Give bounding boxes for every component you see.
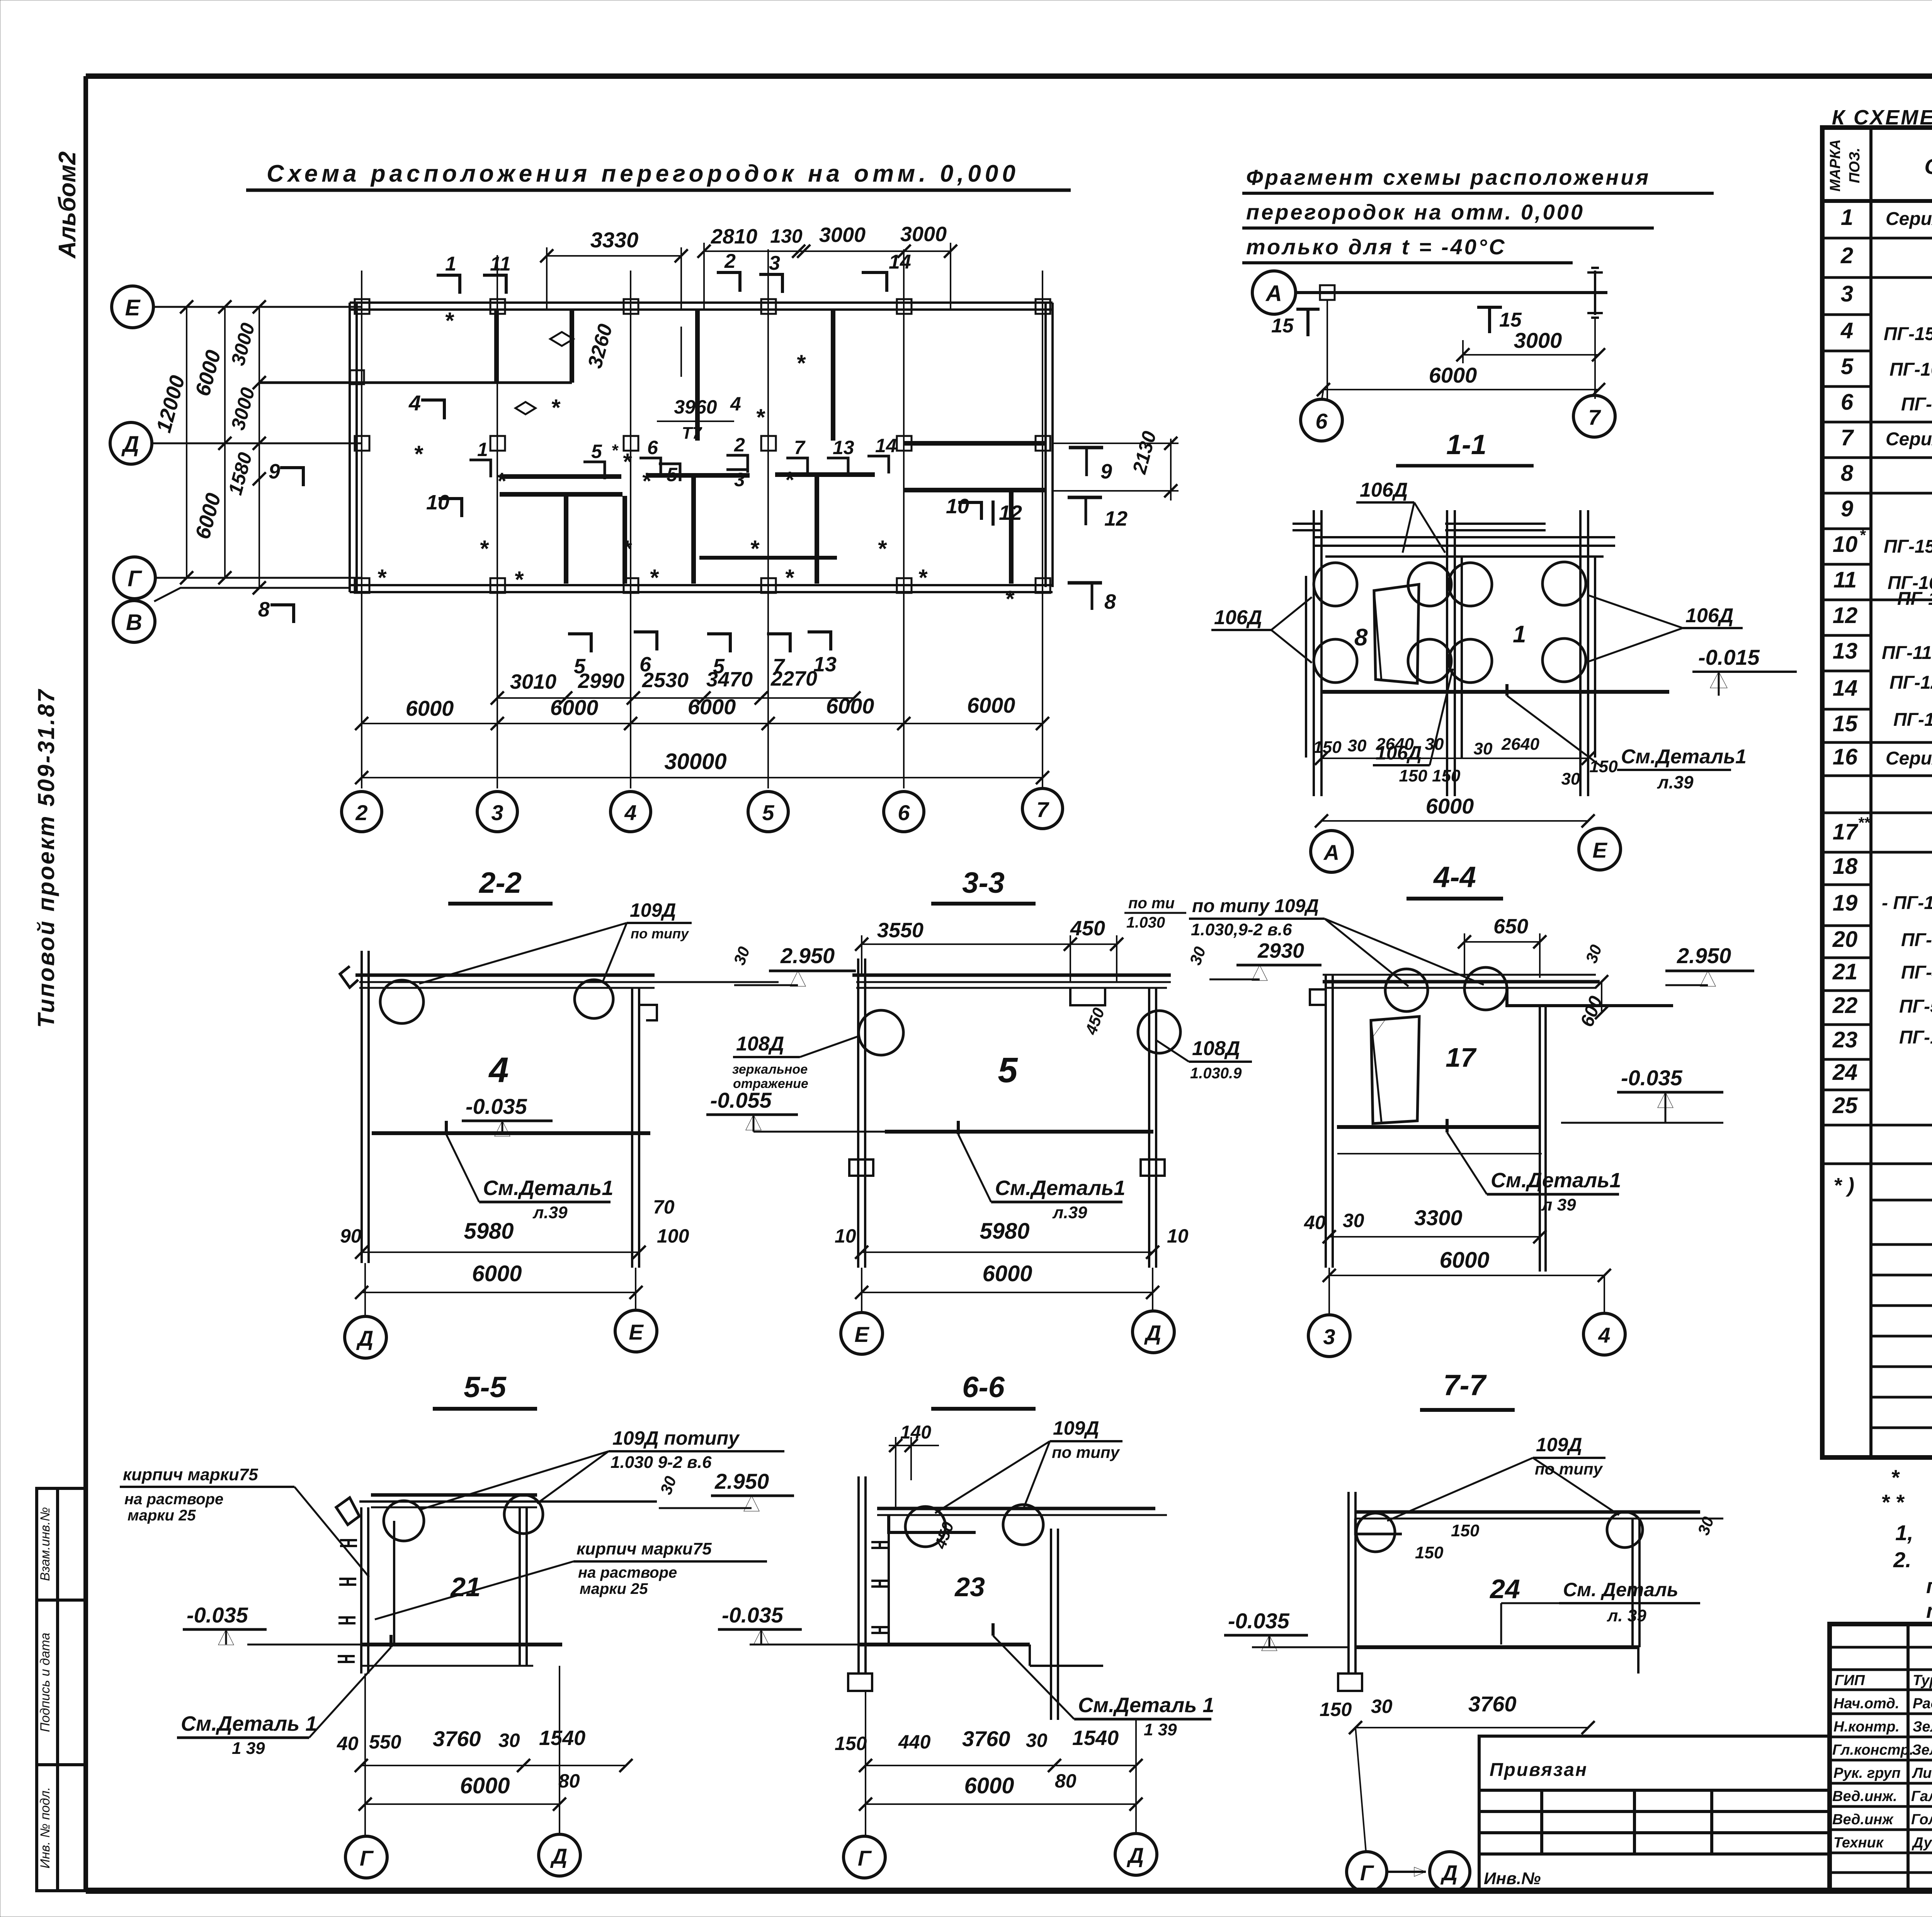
svg-text:10: 10 bbox=[426, 491, 449, 514]
svg-text:толщиной 4 мм.: толщиной 4 мм. bbox=[1926, 1599, 1932, 1622]
svg-text:12: 12 bbox=[1104, 507, 1128, 530]
svg-text:перегородок на отм. 0,000: перегородок на отм. 0,000 bbox=[1246, 200, 1585, 224]
flag 10 12 right bbox=[946, 495, 1022, 526]
svg-text:3000: 3000 bbox=[819, 223, 866, 247]
flag 10 left bbox=[426, 491, 462, 517]
svg-text:1-1: 1-1 bbox=[1446, 429, 1486, 460]
svg-text:л. 39: л. 39 bbox=[1607, 1606, 1646, 1625]
svg-text:6000: 6000 bbox=[460, 1773, 510, 1798]
4-4 beam bbox=[1323, 975, 1600, 988]
svg-text:ПГ-11 .... ПГ-11-2,: ПГ-11 .... ПГ-11-2, bbox=[1882, 643, 1932, 663]
6-6 dim 140 bbox=[889, 1422, 939, 1507]
svg-text:на растворе: на растворе bbox=[578, 1564, 677, 1581]
4-4 dims bottom bbox=[1304, 1205, 1463, 1233]
svg-text:Гл.констр.: Гл.констр. bbox=[1832, 1742, 1913, 1758]
svg-text:*: * bbox=[551, 395, 561, 421]
svg-text:-0.035: -0.035 bbox=[722, 1603, 784, 1627]
svg-text:109Д: 109Д bbox=[1536, 1434, 1582, 1456]
door mark top bbox=[550, 332, 573, 346]
svg-text:МАРКА: МАРКА bbox=[1827, 139, 1844, 191]
3-3 axis circle E bbox=[841, 1268, 883, 1354]
plan bottom wall bbox=[350, 585, 1053, 592]
svg-text:7: 7 bbox=[1841, 425, 1854, 450]
svg-text:7: 7 bbox=[794, 437, 806, 458]
svg-text:30: 30 bbox=[1474, 739, 1493, 758]
svg-text:См.Деталь 1: См.Деталь 1 bbox=[181, 1712, 317, 1735]
2-2 axis circle D bbox=[345, 1263, 386, 1358]
column squares row D bbox=[355, 436, 1050, 451]
svg-text:ПГ-15 ... ПГ-15-3,: ПГ-15 ... ПГ-15-3, bbox=[1884, 536, 1932, 557]
6-6 weld circles bbox=[905, 1507, 946, 1547]
svg-text:150: 150 bbox=[1451, 1521, 1480, 1540]
svg-text:3760: 3760 bbox=[962, 1726, 1010, 1751]
svg-text:30: 30 bbox=[1582, 942, 1605, 965]
privyazan table bbox=[1479, 1736, 1830, 1891]
svg-text:150: 150 bbox=[1320, 1699, 1352, 1720]
6-6 step ledge bbox=[889, 1515, 976, 1532]
dim 30000 bbox=[355, 749, 1049, 784]
svg-text:40: 40 bbox=[337, 1733, 359, 1754]
7-7 floor bbox=[1252, 1647, 1638, 1674]
svg-text:18: 18 bbox=[1833, 854, 1858, 879]
svg-text:ОБОЗНАЧЕНИЕ: ОБОЗНАЧЕНИЕ bbox=[1924, 154, 1932, 179]
svg-text:См.Деталь1: См.Деталь1 bbox=[1491, 1169, 1621, 1192]
left dim line 3000/3000/1580 bbox=[224, 307, 259, 588]
svg-text:10: 10 bbox=[1833, 532, 1858, 557]
svg-text:4: 4 bbox=[488, 1050, 509, 1090]
svg-text:1.030: 1.030 bbox=[1126, 914, 1165, 931]
3-3 left column bbox=[858, 958, 865, 1268]
3-3 dim 3550 450 bbox=[855, 917, 1123, 982]
flag 12 right lower bbox=[1068, 497, 1128, 530]
svg-text:6000: 6000 bbox=[472, 1261, 522, 1286]
specification table bbox=[1822, 78, 1932, 1457]
svg-text:13: 13 bbox=[833, 437, 854, 458]
svg-text:Е: Е bbox=[854, 1322, 869, 1347]
svg-text:Дубицкая: Дубицкая bbox=[1912, 1835, 1932, 1851]
interior dim row 3010 2990 2530 3470 2270 bbox=[491, 667, 861, 705]
dim 3260 vertical bbox=[584, 322, 681, 377]
1-1 weld circles lower row bbox=[1314, 638, 1586, 683]
svg-text:6000: 6000 bbox=[964, 1773, 1014, 1798]
svg-text:109Д: 109Д bbox=[1053, 1417, 1099, 1439]
6-6 dims bottom bbox=[835, 1726, 1119, 1754]
svg-text:70: 70 bbox=[653, 1196, 675, 1218]
1-1 column left bbox=[1306, 510, 1321, 796]
svg-text:Г: Г bbox=[128, 566, 142, 591]
5-5 beam bbox=[359, 1495, 657, 1507]
svg-text:Техник: Техник bbox=[1833, 1835, 1884, 1851]
svg-text:1: 1 bbox=[1841, 205, 1853, 230]
svg-text:зеркальное: зеркальное bbox=[732, 1062, 808, 1077]
svg-text:6000: 6000 bbox=[967, 693, 1015, 717]
svg-text:Альбом2: Альбом2 bbox=[54, 152, 81, 259]
svg-text:2.: 2. bbox=[1893, 1548, 1912, 1572]
svg-text:марки 25: марки 25 bbox=[580, 1580, 648, 1597]
flag 9 right bbox=[1069, 448, 1112, 483]
asterisks on plan bbox=[377, 308, 1015, 612]
axis circle D bbox=[110, 422, 152, 464]
svg-text:*: * bbox=[1859, 527, 1866, 544]
svg-text:10: 10 bbox=[1167, 1225, 1189, 1247]
svg-text:1540: 1540 bbox=[539, 1726, 585, 1750]
partition vertical x1480 bbox=[570, 310, 574, 383]
2-2 left wall hook bbox=[340, 966, 358, 987]
7-7 axis circles G D bbox=[1347, 1728, 1470, 1892]
see detail leader bbox=[1507, 684, 1602, 767]
axis line E bbox=[153, 306, 361, 308]
2-2 level 2.950 bbox=[734, 943, 856, 986]
svg-text:1: 1 bbox=[445, 253, 456, 275]
svg-text:2530: 2530 bbox=[642, 669, 689, 692]
svg-text:2.950: 2.950 bbox=[780, 943, 835, 968]
svg-text:-0.035: -0.035 bbox=[187, 1603, 248, 1627]
partition horizontal right on axis D bbox=[904, 441, 1046, 446]
5-5 dims bottom bbox=[337, 1726, 585, 1754]
svg-text:* *: * * bbox=[1881, 1490, 1905, 1514]
svg-text:2: 2 bbox=[355, 800, 367, 825]
svg-text:15: 15 bbox=[1271, 315, 1294, 337]
section 1-1 bbox=[1211, 429, 1797, 872]
4-4 under floor line bbox=[1337, 1153, 1542, 1154]
svg-text:л.39: л.39 bbox=[1657, 772, 1694, 792]
4-4 axis circle 4 bbox=[1583, 1275, 1625, 1355]
flag 14 top bbox=[862, 251, 911, 292]
svg-text:л.39: л.39 bbox=[1052, 1203, 1087, 1222]
svg-text:Д: Д bbox=[1144, 1321, 1161, 1345]
2-2 beam bbox=[355, 975, 779, 988]
svg-text:*: * bbox=[641, 468, 651, 494]
1-1 axis circle E bbox=[1579, 828, 1621, 870]
dim 2130 right bbox=[1053, 429, 1179, 501]
svg-text:*: * bbox=[750, 536, 760, 562]
svg-text:5: 5 bbox=[667, 464, 678, 485]
flag 8 right bbox=[1068, 583, 1116, 613]
svg-text:6000: 6000 bbox=[982, 1261, 1032, 1286]
svg-text:2: 2 bbox=[724, 250, 736, 272]
main title bbox=[246, 160, 1071, 190]
5-5 top-left arrow bbox=[336, 1498, 359, 1525]
flag 5 star mid bbox=[583, 441, 619, 479]
svg-text:Радько: Радько bbox=[1913, 1696, 1932, 1712]
4-4 600 rotated bbox=[1577, 975, 1608, 1030]
dim 3960 4 bbox=[657, 393, 741, 443]
svg-text:См.Деталь1: См.Деталь1 bbox=[995, 1176, 1125, 1200]
svg-text:*: * bbox=[784, 467, 794, 493]
4-4 ledge step bbox=[1507, 988, 1673, 1006]
svg-text:Подпись и дата: Подпись и дата bbox=[38, 1633, 53, 1732]
svg-text:5980: 5980 bbox=[980, 1219, 1029, 1244]
svg-text:7: 7 bbox=[1036, 797, 1049, 822]
svg-text:2130: 2130 bbox=[1128, 429, 1160, 476]
partition vertical x1285 bbox=[494, 310, 499, 383]
axis circle E bbox=[112, 286, 153, 328]
1-1 bottom dim line bbox=[1315, 752, 1595, 765]
grid circle 3 bbox=[477, 792, 517, 832]
plan left wall bbox=[350, 303, 357, 592]
svg-text:*: * bbox=[622, 536, 632, 562]
6-6 see detail bbox=[993, 1623, 1214, 1739]
title block outer bbox=[1830, 1624, 1932, 1891]
svg-text:30: 30 bbox=[1186, 944, 1209, 967]
5-5 brick hatch bbox=[338, 1540, 357, 1662]
svg-text:Фрагмент схемы расположения: Фрагмент схемы расположения bbox=[1246, 165, 1650, 189]
grid line 2 bbox=[361, 271, 362, 788]
svg-text:16: 16 bbox=[1833, 744, 1858, 770]
3-3 floor line bbox=[753, 1131, 1153, 1133]
svg-text:См.Деталь 1: См.Деталь 1 bbox=[1078, 1694, 1214, 1717]
left columns bbox=[1908, 1624, 1932, 1891]
flag 15 mid bbox=[1477, 307, 1522, 333]
axis circle V bbox=[113, 601, 155, 642]
svg-text:Е: Е bbox=[125, 295, 141, 320]
svg-text:- ПГ-1÷ ПГ-1-4,: - ПГ-1÷ ПГ-1-4, bbox=[1882, 893, 1932, 913]
svg-text:650: 650 bbox=[1493, 915, 1528, 938]
4-4 floor bbox=[1337, 1123, 1723, 1127]
svg-text:17: 17 bbox=[1833, 819, 1859, 844]
axis circle G bbox=[114, 557, 155, 599]
svg-text:*: * bbox=[877, 536, 887, 562]
svg-text:15: 15 bbox=[1833, 711, 1858, 736]
svg-text:-0.035: -0.035 bbox=[466, 1094, 527, 1119]
svg-text:*: * bbox=[622, 449, 632, 475]
5-5 axis circle D bbox=[539, 1666, 580, 1876]
1-1 column mid bbox=[1447, 510, 1462, 796]
svg-text:Д: Д bbox=[1440, 1861, 1458, 1885]
svg-text:кирпич марки75: кирпич марки75 bbox=[123, 1465, 258, 1484]
svg-text:3470: 3470 bbox=[706, 668, 753, 691]
svg-text:2640: 2640 bbox=[1376, 735, 1414, 754]
svg-text:11: 11 bbox=[490, 253, 511, 275]
column squares row E bbox=[355, 299, 1050, 314]
svg-text:5980: 5980 bbox=[464, 1219, 514, 1244]
svg-text:*: * bbox=[514, 567, 524, 592]
svg-text:Типовой проект 509-31.87: Типовой проект 509-31.87 bbox=[33, 688, 59, 1028]
left strip boxes bbox=[37, 1488, 86, 1891]
svg-text:1: 1 bbox=[1513, 621, 1526, 648]
svg-text:2.950: 2.950 bbox=[714, 1469, 769, 1493]
svg-text:-0.035: -0.035 bbox=[1228, 1609, 1290, 1633]
flags 2 3 bbox=[717, 250, 782, 293]
svg-text:108Д: 108Д bbox=[736, 1033, 784, 1055]
svg-text:марки 25: марки 25 bbox=[128, 1507, 196, 1524]
4-4 right partition bbox=[1540, 1006, 1546, 1272]
svg-text:150 150: 150 150 bbox=[1399, 766, 1461, 785]
svg-text:5: 5 bbox=[1841, 354, 1854, 379]
svg-text:-0.055: -0.055 bbox=[710, 1088, 772, 1112]
4-4 door leaf bbox=[1371, 1016, 1419, 1124]
svg-text:Т7: Т7 bbox=[682, 424, 702, 443]
svg-text:40: 40 bbox=[1304, 1212, 1326, 1233]
svg-text:Д: Д bbox=[121, 432, 139, 457]
svg-text:по типу: по типу bbox=[1052, 1443, 1121, 1461]
6-6 level -0.035 bbox=[718, 1603, 802, 1645]
grid circle 2 bbox=[342, 792, 382, 832]
svg-text:ПГ-12, ПГ-12-1,: ПГ-12, ПГ-12-1, bbox=[1889, 672, 1932, 693]
svg-text:покрыть вспучивающимся покр: покрыть вспучивающимся покрытием ВПМ-2 (… bbox=[1926, 1575, 1932, 1598]
svg-text:30: 30 bbox=[656, 1474, 680, 1497]
svg-text:8: 8 bbox=[1841, 461, 1854, 486]
svg-text:14: 14 bbox=[1833, 676, 1858, 701]
plan right wall bbox=[1046, 303, 1053, 587]
1-1 6000 dim bbox=[1315, 794, 1595, 827]
fragment column square left bbox=[1320, 285, 1335, 300]
7-7 beam bbox=[1356, 1512, 1723, 1519]
fragment wall line bbox=[1296, 291, 1607, 294]
svg-text:1540: 1540 bbox=[1072, 1726, 1119, 1750]
svg-text:4-4: 4-4 bbox=[1433, 861, 1476, 894]
svg-text:Лисунов: Лисунов bbox=[1912, 1765, 1932, 1781]
6-6 mid partition bbox=[1051, 1529, 1058, 1720]
fragment column right bbox=[1587, 268, 1603, 318]
svg-text:*: * bbox=[611, 441, 619, 460]
svg-text:19: 19 bbox=[1833, 890, 1858, 916]
svg-text:30: 30 bbox=[1348, 736, 1367, 755]
svg-text:Зеленский: Зеленский bbox=[1912, 1742, 1932, 1758]
svg-text:**: ** bbox=[1858, 814, 1871, 831]
partition horizontal y1279 bbox=[500, 492, 622, 497]
svg-text:23: 23 bbox=[954, 1572, 985, 1602]
plan top wall bbox=[350, 303, 1053, 310]
svg-text:13: 13 bbox=[1833, 638, 1858, 664]
svg-text:23: 23 bbox=[1832, 1027, 1858, 1052]
4-4 axis circle 3 bbox=[1308, 1268, 1350, 1357]
7-7 foot bbox=[1338, 1674, 1362, 1691]
7-7 right partition bbox=[1633, 1519, 1639, 1647]
5-5 left wall bbox=[361, 1507, 394, 1674]
1-1 floor line bbox=[1321, 690, 1669, 694]
svg-text:1.030,9-2 в.6: 1.030,9-2 в.6 bbox=[1191, 920, 1292, 939]
oboznachenie column texts bbox=[1882, 209, 1932, 1120]
svg-text:150: 150 bbox=[1589, 757, 1618, 776]
svg-text:9: 9 bbox=[1100, 460, 1112, 483]
grid circle 7 bbox=[1022, 788, 1063, 829]
svg-text:6-6: 6-6 bbox=[962, 1371, 1005, 1404]
svg-text:21: 21 bbox=[450, 1572, 481, 1602]
svg-text:2.950: 2.950 bbox=[1677, 943, 1731, 968]
flag 7 mid bbox=[786, 437, 808, 475]
1-1 door leaf bbox=[1374, 584, 1419, 683]
svg-text:3000: 3000 bbox=[227, 385, 259, 432]
svg-text:*: * bbox=[377, 565, 387, 591]
svg-text:Туринский: Туринский bbox=[1913, 1672, 1932, 1689]
svg-text:6000: 6000 bbox=[191, 491, 225, 542]
svg-text:108Д: 108Д bbox=[1192, 1037, 1240, 1060]
svg-text:9: 9 bbox=[269, 460, 280, 483]
svg-text:109Д: 109Д bbox=[630, 899, 676, 921]
header bottom line bbox=[1822, 199, 1932, 203]
axis circle A bbox=[1252, 271, 1296, 314]
svg-text:*: * bbox=[649, 565, 659, 591]
dim ticks left column bbox=[180, 300, 266, 594]
svg-text:Схема расположения перегород: Схема расположения перегородок на отм. 0… bbox=[267, 160, 1019, 187]
3-3 notch 450 bbox=[1070, 988, 1105, 1005]
6-6 label 109D bbox=[935, 1417, 1122, 1513]
svg-text:20: 20 bbox=[1832, 927, 1858, 952]
svg-text:3000: 3000 bbox=[900, 223, 947, 246]
1-1 top beams bbox=[1293, 524, 1615, 557]
2-2 label 109D bbox=[419, 899, 692, 984]
partition horizontal y1443 bbox=[699, 556, 837, 560]
6-6 left wall bbox=[859, 1476, 889, 1674]
axis line V leader bbox=[154, 588, 350, 601]
partition long horizontal y1233 bbox=[500, 475, 875, 477]
svg-text:90: 90 bbox=[340, 1225, 362, 1247]
4-4 see detail bbox=[1447, 1119, 1621, 1214]
svg-text:Г: Г bbox=[858, 1846, 872, 1870]
svg-text:3: 3 bbox=[769, 252, 780, 274]
svg-text:109Д потипу: 109Д потипу bbox=[612, 1427, 740, 1449]
flag 14 mid bbox=[867, 435, 897, 473]
flag 13 mid bbox=[827, 437, 854, 475]
flags below bottom wall 5 6 5 7 13 bbox=[568, 632, 837, 678]
svg-text:*: * bbox=[413, 441, 423, 467]
3-3 label 108D right bbox=[1155, 1037, 1252, 1082]
grid line 7 bbox=[1042, 271, 1043, 788]
2-2 see detail bbox=[446, 1121, 613, 1222]
svg-text:на растворе: на растворе bbox=[124, 1491, 223, 1508]
svg-text:* ): * ) bbox=[1833, 1174, 1854, 1197]
svg-text:5: 5 bbox=[998, 1050, 1018, 1090]
top dim 3330 bbox=[540, 228, 688, 309]
svg-text:*: * bbox=[784, 565, 794, 591]
5-5 right column bbox=[361, 1507, 533, 1666]
2-2 weld circle right bbox=[575, 980, 613, 1018]
flag 5 bottom-mid bbox=[659, 464, 680, 485]
svg-text:ПГ-13, ПГ-14.: ПГ-13, ПГ-14. bbox=[1893, 710, 1932, 730]
svg-text:только для t = -40°С: только для t = -40°С bbox=[1246, 235, 1507, 259]
svg-text:14: 14 bbox=[889, 251, 911, 273]
svg-text:6000: 6000 bbox=[191, 348, 225, 399]
svg-text:л.39: л.39 bbox=[532, 1203, 568, 1222]
6-6 brick hatch bbox=[871, 1542, 888, 1633]
top dim 2810 130 3000 3000 bbox=[697, 223, 957, 309]
svg-text:6000: 6000 bbox=[688, 695, 736, 719]
3-3 axis circle D bbox=[1133, 1268, 1174, 1353]
svg-text:150: 150 bbox=[1415, 1543, 1444, 1562]
3-3 weld circle left bbox=[859, 1010, 903, 1055]
7-7 step bbox=[1355, 1519, 1402, 1534]
svg-text:Привязан: Привязан bbox=[1490, 1760, 1588, 1780]
svg-text:7: 7 bbox=[1588, 405, 1601, 429]
3-3 po tipu label bbox=[1124, 895, 1186, 931]
svg-text:л 39: л 39 bbox=[1541, 1195, 1576, 1214]
svg-text:30: 30 bbox=[1026, 1730, 1048, 1751]
left rows bbox=[1830, 1647, 1932, 1873]
svg-text:30: 30 bbox=[730, 944, 753, 967]
svg-text:кирпич марки75: кирпич марки75 bbox=[577, 1539, 712, 1558]
svg-text:440: 440 bbox=[898, 1731, 931, 1753]
4-4 level 2930 left bbox=[1209, 939, 1321, 981]
svg-text:ГИП: ГИП bbox=[1835, 1672, 1865, 1689]
svg-text:ПОЗ.: ПОЗ. bbox=[1847, 148, 1863, 183]
svg-text:30: 30 bbox=[498, 1730, 520, 1751]
6-6 floor bbox=[750, 1645, 1103, 1666]
svg-text:3: 3 bbox=[734, 469, 745, 490]
svg-text:1 39: 1 39 bbox=[232, 1739, 265, 1758]
svg-text:Галактионова: Галактионова bbox=[1911, 1788, 1932, 1805]
svg-text:5: 5 bbox=[591, 441, 602, 462]
svg-text:5: 5 bbox=[762, 800, 774, 825]
svg-text:2: 2 bbox=[734, 434, 745, 456]
dims row 1-1 bbox=[1313, 735, 1618, 788]
svg-text:Серия 1.030.9-2 в.0,1: Серия 1.030.9-2 в.0,1 bbox=[1886, 429, 1932, 449]
svg-text:Г: Г bbox=[1360, 1861, 1374, 1885]
106D label bottom bbox=[1373, 669, 1453, 765]
flag 4 bbox=[408, 391, 444, 419]
title block bbox=[1479, 1624, 1932, 1891]
svg-text:30000: 30000 bbox=[664, 749, 726, 774]
